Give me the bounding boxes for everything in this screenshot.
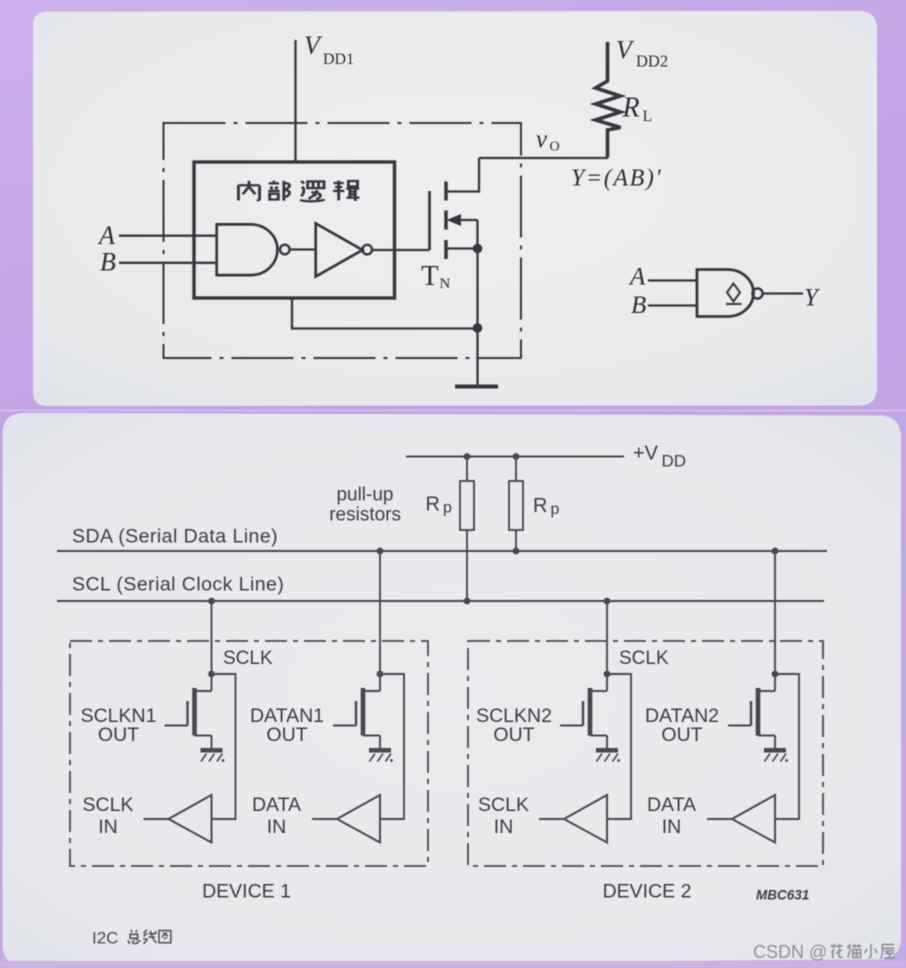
svg-text:B: B [100, 248, 116, 277]
svg-text:N: N [440, 276, 451, 292]
svg-text:R: R [622, 93, 640, 124]
svg-text:DD: DD [662, 452, 687, 471]
svg-text:R: R [426, 494, 440, 516]
svg-text:DD2: DD2 [636, 52, 668, 71]
svg-text:IN: IN [267, 816, 287, 838]
svg-text:OUT: OUT [266, 724, 307, 746]
svg-text:DD1: DD1 [323, 51, 354, 68]
svg-text:pull-up: pull-up [336, 485, 393, 506]
svg-text:v: v [536, 126, 548, 153]
svg-text:IN: IN [662, 816, 682, 838]
svg-text:MBC631: MBC631 [756, 888, 809, 903]
svg-text:SDA (Serial Data Line): SDA (Serial Data Line) [72, 526, 278, 548]
svg-text:L: L [643, 108, 653, 125]
svg-text:DEVICE 1: DEVICE 1 [202, 881, 291, 903]
svg-text:IN: IN [98, 816, 118, 838]
svg-text:A: A [628, 264, 646, 291]
svg-text:SCLK: SCLK [223, 648, 273, 669]
svg-text:DATA: DATA [647, 794, 696, 816]
svg-text:R: R [533, 495, 547, 517]
svg-text:IN: IN [494, 816, 514, 838]
svg-text:O: O [550, 140, 560, 155]
svg-text:DEVICE 2: DEVICE 2 [603, 881, 692, 903]
svg-text:p: p [551, 501, 560, 518]
svg-text:+V: +V [633, 443, 659, 465]
svg-text:DATA: DATA [252, 794, 301, 816]
svg-text:B: B [631, 292, 646, 319]
svg-text:p: p [443, 500, 452, 517]
svg-text:SCLK: SCLK [478, 794, 529, 816]
svg-text:A: A [97, 221, 115, 250]
svg-text:OUT: OUT [98, 724, 139, 746]
svg-text:T: T [421, 260, 439, 292]
svg-text:SCLK: SCLK [83, 794, 134, 816]
svg-text:OUT: OUT [661, 724, 702, 746]
svg-text:I2C: I2C [92, 929, 118, 948]
svg-text:CSDN @: CSDN @ [753, 942, 827, 962]
svg-text:SCLK: SCLK [619, 648, 669, 669]
svg-text:Y=(AB)′: Y=(AB)′ [571, 166, 662, 192]
svg-text:resistors: resistors [329, 505, 401, 526]
svg-text:OUT: OUT [493, 724, 534, 746]
svg-text:SCL (Serial Clock Line): SCL (Serial Clock Line) [72, 574, 284, 596]
